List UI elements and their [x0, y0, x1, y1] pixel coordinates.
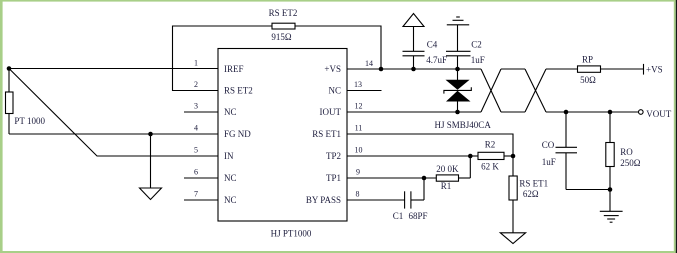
svg-text:NC: NC: [224, 195, 237, 205]
svg-text:20 0K: 20 0K: [436, 164, 459, 174]
svg-text:C4: C4: [427, 39, 438, 49]
svg-text:5: 5: [194, 145, 198, 154]
svg-text:NC: NC: [328, 85, 341, 95]
svg-text:TP2: TP2: [326, 151, 341, 161]
svg-text:TP1: TP1: [326, 173, 341, 183]
border left: [0, 0, 3, 253]
capacitor CO 1uF: [542, 112, 577, 190]
svg-text:RS ET1: RS ET1: [519, 178, 548, 188]
wire diagonal node A to pin5 IN: [9, 69, 218, 157]
junction node C1/R1/TP1: [422, 176, 427, 181]
svg-text:2: 2: [194, 80, 198, 89]
svg-text:NC: NC: [224, 173, 237, 183]
ground (open triangle) below RS ET1: [500, 233, 525, 244]
svg-text:RP: RP: [582, 54, 593, 64]
junction C2/TVS on +VS rail: [455, 67, 460, 72]
wire pin8 BYPASS: [347, 199, 405, 201]
svg-text:+VS: +VS: [324, 64, 341, 74]
svg-text:1uF: 1uF: [471, 55, 485, 65]
svg-text:10: 10: [355, 145, 363, 154]
pin numbers right: [354, 59, 373, 198]
resistor RP 50 ohm: [578, 54, 644, 85]
junction RO on VOUT rail: [608, 110, 613, 115]
svg-text:BY PASS: BY PASS: [306, 195, 341, 205]
wire CO bottom to RO bottom: [566, 189, 610, 191]
wire PT1000 bottom to pin4 FGND: [9, 133, 218, 135]
junction node A2 (R1/R2/TP2): [468, 154, 473, 159]
resistor RS ET2 915 ohm loop to pin2: [173, 8, 382, 91]
resistor R1 200K: [436, 156, 470, 191]
svg-text:PT 1000: PT 1000: [14, 116, 45, 126]
svg-text:4.7uF: 4.7uF: [426, 55, 447, 65]
wire pin1 IREF to node A: [9, 68, 218, 70]
junction C4 on +VS rail: [411, 67, 416, 72]
capacitor C1 68PF: [393, 178, 428, 221]
pin 13 stub NC: [347, 90, 382, 92]
wire pin9 TP1: [347, 177, 436, 179]
svg-text:62Ω: 62Ω: [523, 189, 539, 199]
pin numbers left: [194, 58, 198, 198]
svg-text:C1: C1: [393, 211, 404, 221]
svg-text:+VS: +VS: [646, 65, 663, 75]
op-amp U1 HJ PT1000 IC body: [218, 49, 347, 222]
ground (open triangle) under FGND junction: [140, 134, 162, 200]
svg-text:68PF: 68PF: [409, 211, 428, 221]
svg-text:HJ SMBJ40CA: HJ SMBJ40CA: [435, 120, 492, 130]
svg-text:8: 8: [356, 189, 360, 198]
svg-text:VOUT: VOUT: [646, 109, 671, 119]
svg-text:915Ω: 915Ω: [271, 32, 292, 42]
svg-text:13: 13: [354, 80, 362, 89]
svg-text:4: 4: [194, 123, 198, 132]
svg-text:FG ND: FG ND: [224, 129, 251, 139]
TVS diode HJ SMBJ40CA: [435, 69, 492, 130]
IC pin labels left: [224, 64, 253, 205]
svg-text:11: 11: [355, 123, 363, 132]
wire pin14 +VS rail: [347, 68, 481, 70]
svg-text:RS ET2: RS ET2: [224, 85, 253, 95]
border top: [0, 0, 677, 2]
junction on FGND wire: [148, 132, 153, 137]
resistor R2 62K: [470, 140, 513, 172]
pin 3 stub NC: [184, 111, 218, 113]
svg-text:RS ET2: RS ET2: [269, 8, 298, 18]
+VS terminal: [644, 64, 663, 75]
svg-text:9: 9: [356, 167, 360, 176]
svg-text:R1: R1: [441, 181, 452, 191]
svg-text:6: 6: [194, 167, 198, 176]
resistor PT1000: [6, 69, 46, 135]
twisted pair crossing wires: [481, 69, 639, 112]
svg-text:1: 1: [194, 58, 198, 67]
pin 6 stub NC: [184, 177, 218, 179]
capacitor C2 1uF with earth symbol on top: [446, 17, 485, 69]
svg-text:C2: C2: [471, 39, 482, 49]
junction loop top on +VS rail: [379, 67, 384, 72]
svg-text:250Ω: 250Ω: [620, 158, 641, 168]
junction CO on VOUT rail: [564, 110, 569, 115]
resistor RO 250 ohm: [606, 112, 641, 190]
svg-text:12: 12: [355, 101, 363, 110]
wire pin11 RS ET1 to node B: [347, 134, 513, 156]
wire pin12 IOUT rail: [347, 111, 481, 113]
svg-text:IN: IN: [224, 151, 234, 161]
svg-text:HJ PT1000: HJ PT1000: [271, 228, 312, 238]
VOUT terminal: [639, 109, 672, 119]
border right: [674, 0, 676, 253]
border bottom: [0, 251, 677, 253]
pin 7 stub NC: [184, 199, 218, 201]
svg-text:62 K: 62 K: [481, 162, 499, 172]
svg-text:R2: R2: [485, 140, 496, 150]
svg-text:3: 3: [194, 101, 198, 110]
svg-text:CO: CO: [542, 140, 555, 150]
svg-text:IOUT: IOUT: [320, 107, 342, 117]
earth ground below RO: [600, 190, 623, 223]
capacitor C4 4.7uF with +VS arrow: [403, 14, 448, 70]
junction at RO bottom: [608, 187, 613, 192]
svg-text:1uF: 1uF: [542, 157, 556, 167]
svg-text:RO: RO: [620, 147, 633, 157]
svg-text:RS ET1: RS ET1: [312, 129, 341, 139]
junction TVS on IOUT rail: [455, 110, 460, 115]
resistor RS ET1 62 ohm: [509, 156, 548, 233]
junction node B (R2/RS ET1/pin11): [511, 154, 516, 159]
svg-text:IREF: IREF: [224, 64, 244, 74]
IC pin labels right: [306, 64, 342, 205]
svg-text:50Ω: 50Ω: [580, 75, 596, 85]
node A junction at PT1000 top: [7, 66, 12, 71]
wire pin10 TP2 to node A2: [347, 155, 470, 157]
svg-text:NC: NC: [224, 107, 237, 117]
svg-text:7: 7: [194, 189, 198, 198]
svg-text:14: 14: [365, 59, 373, 68]
